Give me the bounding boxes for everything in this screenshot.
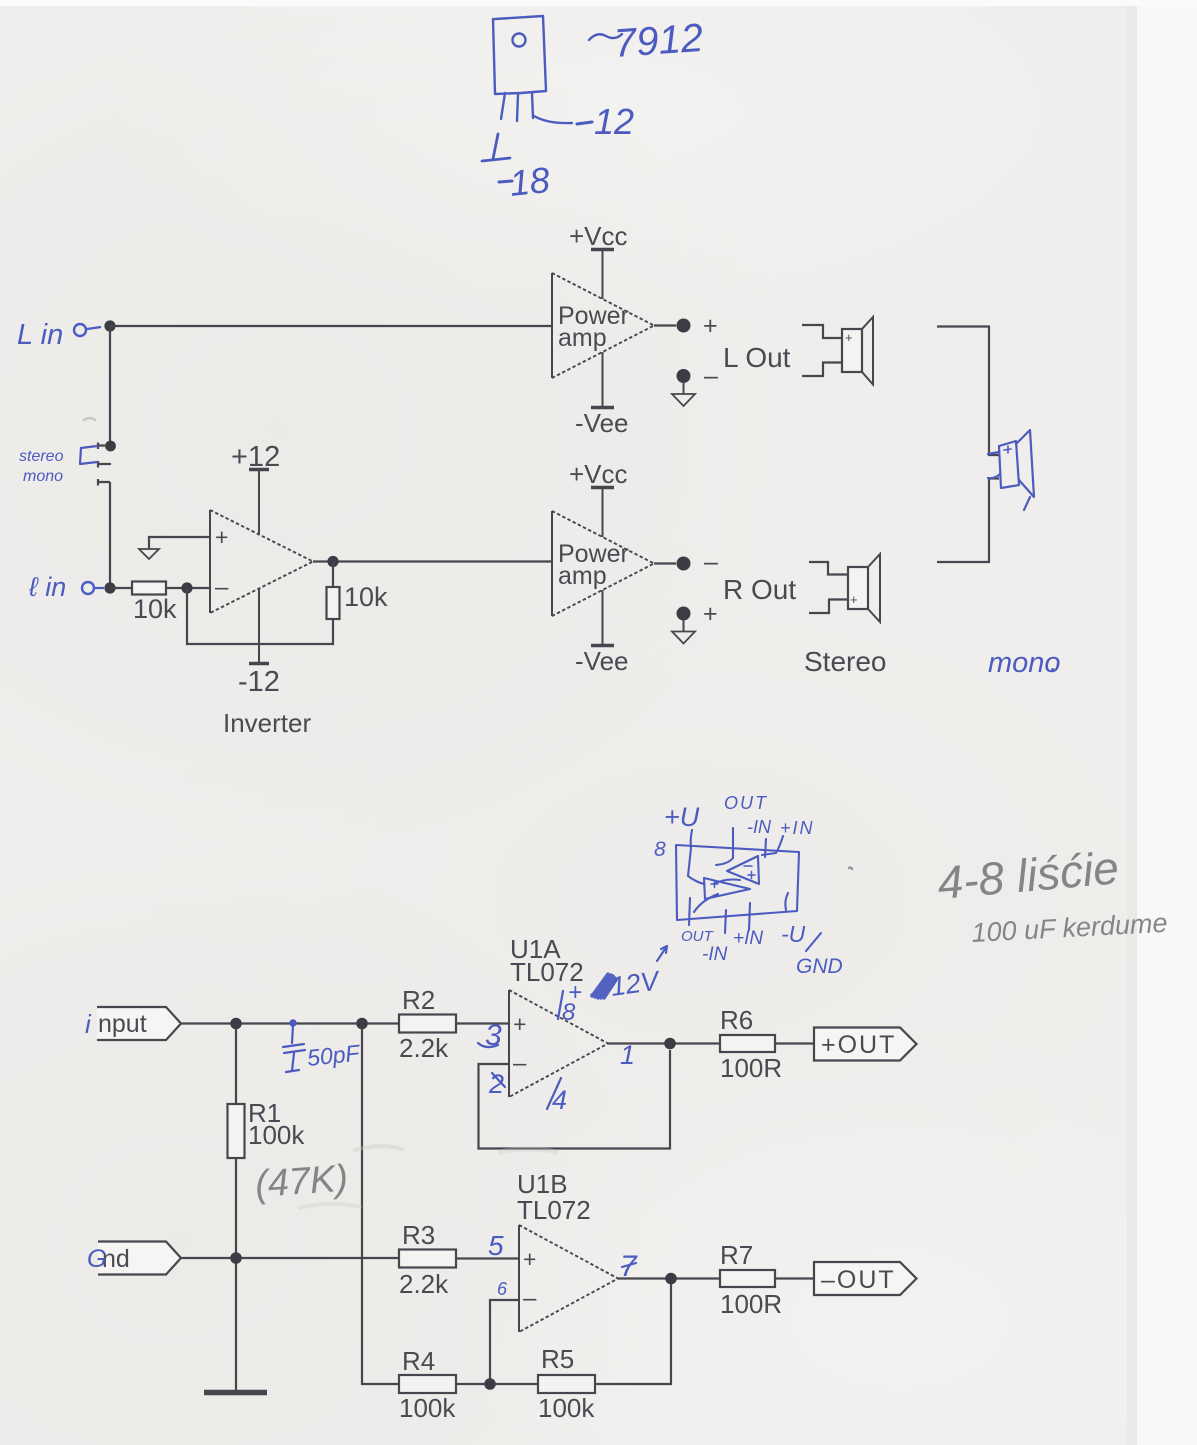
svg-text:-12: -12 [238,666,280,698]
power amp 2 -Vee [602,590,604,644]
node input junction 2 [356,1018,368,1030]
svg-text:stereo: stereo [19,448,64,465]
svg-text:7912: 7912 [613,16,705,66]
op-amp U1A [508,990,510,1097]
wire U1B output [618,1277,720,1279]
regulator leg 2 [517,94,518,121]
op-amp A sketch pointing right [704,878,750,899]
ground at inverter + input [149,537,210,549]
arrow bottom left [657,946,667,961]
svg-text:+: + [523,1246,536,1272]
svg-text:+: + [215,524,228,550]
resistor 10k input [132,582,166,595]
connector Gnd [98,1242,181,1275]
node gnd junction [230,1252,242,1264]
svg-text:Stereo: Stereo [804,646,887,677]
svg-text:5: 5 [488,1230,504,1261]
svg-text:–: – [704,548,718,576]
speaker mono plus [1004,446,1011,453]
speaker mono stub [988,452,1000,478]
capacitor 50pF lead bottom [286,1053,299,1072]
speaker R [809,562,848,575]
slash pin 4 [547,1078,561,1109]
speaker L [802,325,842,338]
resistor R1 [228,1104,245,1158]
svg-text:+12: +12 [231,441,280,473]
inner wire a plus [714,880,740,885]
svg-text:L Out: L Out [723,342,791,373]
node R4 R5 junction [484,1378,496,1390]
resistor R5 [538,1375,595,1393]
scribble blob 12V [592,974,616,998]
flourish pin 3 [478,1043,498,1047]
node U1A output [664,1038,676,1050]
svg-text:10k: 10k [133,594,177,624]
node U1B output [665,1273,677,1285]
wire R1 to ground [235,1158,237,1390]
regulator leg 1 [501,93,505,119]
connector -OUT [814,1262,917,1295]
svg-text:.: . [1050,647,1058,677]
ground bar lower [204,1390,267,1396]
svg-text:GND: GND [796,955,843,978]
svg-text:R7: R7 [720,1240,753,1270]
wire R1 branch [235,1029,237,1104]
op-amp A plus [711,881,718,888]
wire switch to R-in junction [109,482,111,588]
resistor R4 [399,1375,456,1393]
svg-text:+: + [703,312,718,340]
wire leg to -12 [534,116,572,123]
resistor 10k feedback [332,562,334,588]
wire U1A output [608,1042,720,1044]
svg-text:10k: 10k [344,582,388,612]
svg-text:-IN: -IN [747,817,772,837]
-12 supply [258,589,260,663]
ground at R out [683,621,685,632]
svg-text:+: + [703,600,718,628]
power amp 2 triangle [551,511,553,616]
wire L-in to power amp 1 [110,325,552,327]
slash pin 8 [558,991,563,1019]
wire U1B inverting input [490,1300,519,1379]
dash of -18 [499,181,512,182]
svg-text:-IN: -IN [702,944,728,965]
svg-text:6: 6 [497,1279,508,1299]
hook pin 2 [492,1073,505,1087]
wire R4 to junction [456,1383,538,1385]
crossbar pin 7 [622,1263,636,1267]
pin stub -u bottom [785,893,788,910]
svg-text:100R: 100R [720,1289,782,1319]
capacitor 50pF lead top [292,1025,293,1043]
resistor R3 [399,1250,456,1268]
+12 supply [258,471,260,534]
resistor R7 [720,1270,775,1287]
op-amp B plus minus [744,866,755,879]
wire gnd to R3 [181,1257,399,1259]
capacitor node mark [290,1020,295,1025]
svg-text:+: + [568,979,582,1006]
pin stub -in top [765,839,766,857]
power amp 1 output - node [677,369,691,383]
svg-text:+: + [513,1011,526,1037]
pin stub -in bottom [725,910,726,933]
capacitor 50pF plates [283,1044,305,1053]
wire U1A feedback [479,1050,671,1149]
wire R3 to U1B [456,1257,519,1259]
svg-text:+Vcc: +Vcc [569,221,628,251]
switch bracket blue [80,446,97,464]
svg-text:100k: 100k [538,1393,595,1423]
pin stub out top [716,828,733,865]
pin stub +in top [762,836,783,855]
regulator hole [513,34,526,47]
svg-text:amp: amp [558,324,607,352]
svg-text:–: – [523,1285,537,1312]
svg-text:100k: 100k [248,1120,305,1150]
regulator 7912 sketch body [493,16,546,94]
power amp 1 triangle [551,273,553,378]
svg-text:–OUT: –OUT [821,1266,896,1294]
wire R7 to -OUT [775,1277,814,1279]
svg-text:+: + [850,592,858,607]
svg-text:4: 4 [552,1085,567,1115]
node R-in terminal [82,582,94,594]
svg-text:-Vee: -Vee [575,646,629,676]
wire R-in to resistor [110,587,132,589]
svg-text:R2: R2 [402,985,435,1015]
svg-text:Inverter: Inverter [223,708,311,738]
resistor R6 [720,1035,775,1052]
wire input to R2 [181,1022,399,1024]
node input junction 1 [230,1018,242,1030]
svg-text:1: 1 [620,1040,635,1070]
svg-text:R4: R4 [402,1346,435,1376]
pin stub out bottom [689,898,690,925]
wire L-in to junction [87,327,101,329]
svg-text:nput: nput [98,1010,147,1038]
connector +OUT [814,1028,917,1061]
node R-in junction [104,582,115,593]
svg-text:12: 12 [594,101,634,142]
slash -U [806,933,821,951]
svg-text:–: – [704,362,718,390]
svg-text:TL072: TL072 [517,1195,591,1225]
svg-text:+Vcc: +Vcc [569,459,628,489]
regulator leg 3 [532,93,533,118]
wire R5 to output node [595,1284,671,1384]
svg-text:R3: R3 [402,1220,435,1250]
ground stroke top sketch [482,134,510,161]
svg-text:(47K): (47K) [254,1158,350,1206]
op-amp inverter [209,510,211,613]
inner wire +U [688,848,704,884]
power amp 2 output - node [654,562,676,564]
pin stub +in bottom [749,903,750,930]
svg-text:OUT: OUT [724,793,768,813]
tilde before 7912 [589,34,622,40]
power amp 2 output + node [677,607,691,621]
power amp 1 -Vee [602,352,604,406]
resistor R2 [399,1015,456,1033]
switch stereo/mono [105,441,116,452]
IC body sketch [676,845,799,920]
svg-text:–: – [513,1050,527,1077]
wire R6 to +OUT [775,1042,814,1044]
svg-text:R Out: R Out [723,574,796,605]
speaker mono sketch box [999,441,1019,488]
svg-text:amp: amp [558,562,607,590]
svg-text:+U: +U [664,802,700,832]
wire mono bracket [937,327,1000,456]
svg-text:mono: mono [23,468,63,485]
wire L-in junction down to switch [109,326,111,441]
svg-text:18: 18 [508,159,552,204]
speaker mono sketch cone [1016,430,1034,497]
node L-in junction [104,320,115,331]
svg-text:G: G [87,1245,106,1273]
svg-text:-Vee: -Vee [575,408,629,438]
power amp 2 +Vcc [602,489,604,537]
wire resistor to inv node [166,587,210,589]
power amp 1 +Vcc [602,251,604,299]
svg-text:–: – [215,574,229,601]
power amp 1 output + node [654,324,676,326]
svg-text:R6: R6 [720,1005,753,1035]
svg-text:OUT: OUT [681,928,715,945]
svg-text:100k: 100k [399,1393,456,1423]
wire input j2 down to R4 [362,1029,399,1384]
svg-text:+IN: +IN [780,818,815,838]
svg-text:+IN: +IN [733,928,763,949]
op-amp U1B [518,1225,520,1332]
svg-text:-U: -U [781,921,806,947]
svg-text:100R: 100R [720,1053,782,1083]
wire R2 to U1A [456,1022,509,1024]
svg-text:2.2k: 2.2k [399,1033,449,1063]
wire feedback [187,589,333,644]
svg-text:L in: L in [17,319,63,351]
svg-text:+: + [845,330,853,345]
svg-text:2.2k: 2.2k [399,1269,449,1299]
dash of -12 [577,122,592,124]
pin stub +U [691,830,692,848]
inner wire out A [694,894,718,912]
node L-in terminal [74,324,86,336]
node inverter output [313,560,552,562]
op-amp B sketch pointing left [727,856,759,884]
svg-text:8: 8 [654,838,666,861]
speaker mono tail [1024,497,1030,510]
svg-text:+OUT: +OUT [821,1031,896,1059]
connector input [97,1007,181,1040]
svg-text:R5: R5 [541,1344,574,1374]
svg-text:ℓ in: ℓ in [28,572,66,602]
node inverter inverting input junction [181,582,192,593]
ground at L out [683,383,685,394]
